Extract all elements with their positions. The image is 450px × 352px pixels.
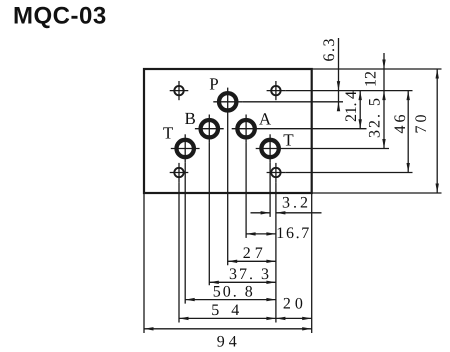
extension port B column down — [208, 143, 210, 285]
dimension 50.8 line — [185, 298, 276, 301]
leader bottom bolt-hole row right — [285, 172, 412, 174]
svg-text:A: A — [259, 109, 272, 128]
dimension 16.7 text — [276, 225, 309, 242]
leader port T row right — [285, 148, 390, 150]
dimension 94 line — [144, 327, 312, 330]
label A — [259, 109, 272, 128]
dimension 3.2 text — [282, 194, 308, 211]
dimension 6.3 text — [321, 39, 338, 62]
extension rect right edge down — [311, 193, 313, 333]
port T right — [256, 134, 285, 162]
svg-text:27: 27 — [243, 245, 263, 262]
dimension 70 line — [436, 69, 439, 193]
label P — [209, 74, 218, 93]
svg-text:P: P — [209, 74, 218, 93]
port P — [213, 88, 242, 116]
svg-text:50. 8: 50. 8 — [213, 284, 253, 301]
dimension 37.3 line — [209, 281, 276, 284]
leader port P row right — [242, 101, 343, 103]
label B — [185, 109, 196, 128]
extension port A column down — [245, 143, 247, 238]
dimension 50.8 text — [213, 284, 253, 301]
svg-text:54: 54 — [211, 302, 239, 319]
extension port P column down — [227, 116, 229, 265]
dimension 32.5 text — [367, 98, 384, 138]
svg-text:3.2: 3.2 — [282, 194, 308, 211]
svg-text:32. 5: 32. 5 — [367, 98, 384, 138]
dimension 27 line — [228, 260, 276, 263]
label T left — [163, 123, 174, 142]
leader bottom edge extension right — [312, 192, 442, 194]
dimension 21.4 line — [359, 91, 362, 129]
extension port T-right column down — [269, 163, 271, 217]
svg-text:16.7: 16.7 — [276, 225, 309, 242]
dimension 20 text — [283, 295, 303, 312]
svg-text:21. 4: 21. 4 — [343, 91, 360, 122]
svg-text:T: T — [163, 123, 174, 142]
dimension 3.2 line — [251, 211, 322, 214]
svg-text:37. 3: 37. 3 — [229, 266, 269, 283]
svg-text:MQC-03: MQC-03 — [13, 3, 107, 30]
svg-text:12: 12 — [363, 71, 380, 87]
extension bolt-hole column right down — [275, 182, 277, 322]
svg-text:70: 70 — [413, 115, 430, 134]
leader top edge extension right — [312, 68, 442, 70]
svg-text:6.3: 6.3 — [321, 39, 338, 62]
port B — [195, 115, 224, 143]
svg-text:B: B — [185, 109, 196, 128]
dimension 12 / 32.5 shared line — [382, 53, 385, 149]
valve mounting plate outline — [144, 69, 312, 193]
dimension 21.4 text — [343, 91, 360, 122]
label T right — [283, 131, 294, 150]
bolt hole bottom-right — [267, 163, 286, 182]
dimension 46 line — [407, 91, 410, 173]
svg-text:20: 20 — [283, 295, 303, 312]
title MQC-03 — [13, 3, 107, 30]
svg-text:46: 46 — [392, 115, 409, 134]
port T left — [171, 134, 200, 162]
dimension 70 text — [413, 115, 430, 134]
dimension 12 text — [363, 71, 380, 87]
dimension 94 text — [217, 333, 237, 350]
svg-text:T: T — [283, 131, 294, 150]
dimension 20 line — [276, 317, 312, 320]
leader bolt-hole row right — [285, 90, 412, 92]
bolt hole top-right — [267, 81, 286, 100]
dimension 16.7 line — [246, 232, 276, 235]
leader port A row right — [261, 128, 367, 130]
dimension 6.3 line — [337, 38, 340, 111]
dimension 37.3 text — [229, 266, 269, 283]
extension port T-left column down — [184, 163, 186, 304]
dimension 27 text — [243, 245, 263, 262]
svg-text:94: 94 — [217, 333, 237, 350]
extension rect left edge down — [143, 193, 145, 333]
dimension 46 text — [392, 115, 409, 134]
dimension 54 line — [179, 317, 276, 320]
dimension 54 text — [211, 302, 239, 319]
bolt hole bottom-left — [170, 163, 189, 182]
extension bolt-hole column left down — [178, 182, 180, 322]
bolt hole top-left — [170, 81, 189, 100]
port A — [232, 115, 261, 143]
